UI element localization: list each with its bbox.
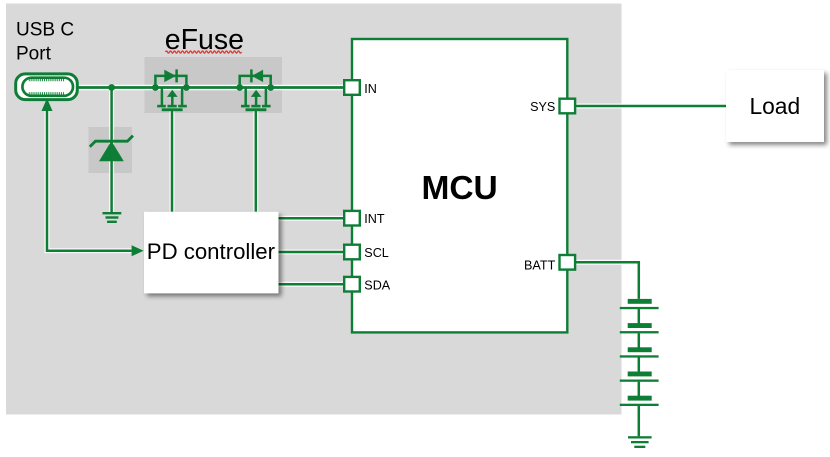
Q2 source leg [244, 88, 247, 106]
pin SYS [530, 99, 575, 114]
D1 triangle [99, 141, 124, 161]
Q2 body diode loop [240, 76, 271, 88]
Q1 body diode loop [155, 76, 186, 88]
wire: SYS to Load [576, 105, 727, 108]
svg-text:IN: IN [364, 82, 377, 96]
wire: USB arrow to PD controller [47, 104, 132, 251]
connector pin teeth bottom [29, 92, 65, 94]
svg-text:Port: Port [16, 44, 52, 65]
Q2 body diode cathode bar [250, 69, 253, 82]
ground (battery) [628, 436, 652, 448]
wire: main rail USB to IN [77, 86, 344, 89]
MCU U1 box [352, 39, 567, 332]
wire: PD to SCL [279, 251, 344, 254]
junction node on rail at TVS [108, 84, 115, 91]
svg-text:SCL: SCL [364, 246, 389, 260]
wire: TVS branch vertical (halo) [109, 88, 114, 213]
Q2 body arrow [255, 97, 258, 106]
wire: PD to SDA [279, 283, 344, 286]
svg-text:Load: Load [749, 93, 800, 119]
MOSFET Q2 [236, 69, 274, 111]
wire: gate 1 down [171, 110, 174, 212]
D1 cathode bar with TVS ticks [90, 136, 133, 147]
wire: BATT to battery [576, 262, 639, 299]
pin IN [344, 80, 377, 96]
pin SCL [344, 245, 389, 260]
Q2 body diode triangle [252, 70, 263, 82]
wire: gate 2 down (halo) [253, 110, 258, 212]
svg-text:SDA: SDA [364, 278, 390, 292]
Q1 body diode cathode bar [175, 69, 178, 82]
svg-text:eFuse: eFuse [165, 24, 244, 56]
connector inner stadium [22, 78, 73, 96]
Q1 drain leg [181, 88, 184, 106]
battery BT1 [620, 299, 659, 436]
wire: gate 2 down [255, 110, 258, 212]
Load box [726, 70, 824, 142]
Q2 drain leg [265, 88, 268, 106]
Q1 body arrow [171, 97, 174, 106]
svg-text:USB C: USB C [16, 20, 74, 41]
Q1 right terminal dot [183, 84, 190, 91]
wire: PD to SDA (halo) [279, 282, 344, 287]
Q1 channel bars [157, 105, 187, 108]
Q1 body diode triangle [164, 70, 176, 82]
pin INT [344, 211, 385, 226]
TVS highlight box [89, 127, 133, 173]
wire: PD to INT (halo) [279, 216, 344, 221]
arrowhead into PD controller [132, 245, 144, 256]
pin BATT [524, 255, 575, 272]
wire: PD to SCL (halo) [279, 250, 344, 255]
label: USB C Port [16, 20, 74, 65]
svg-text:SYS: SYS [530, 100, 555, 114]
USB-C connector [16, 74, 78, 100]
svg-text:INT: INT [364, 212, 385, 226]
wire: main rail USB to IN (white halo) [77, 85, 344, 91]
battery inter-cell wires [638, 309, 641, 436]
wire: gate 1 down (halo) [170, 110, 175, 212]
connector pin teeth top [29, 79, 65, 81]
Q1 source leg [161, 88, 164, 106]
PD controller U2 box [144, 212, 279, 293]
svg-text:BATT: BATT [524, 258, 556, 272]
MOSFET Q1 [152, 69, 190, 111]
wire: TVS branch vertical [110, 88, 113, 213]
svg-text:PD controller: PD controller [147, 239, 276, 264]
Q2 channel bars [241, 105, 271, 108]
Q2 gate plate [246, 108, 267, 111]
wire: SYS to Load (halo) [576, 104, 727, 109]
eFuse highlight box [145, 57, 283, 113]
ground (TVS) [103, 212, 122, 223]
wire: BATT to battery (halo) [576, 262, 639, 299]
arrowhead into USB port [42, 98, 53, 111]
svg-text:MCU: MCU [421, 170, 497, 207]
connector outer shell [16, 74, 78, 100]
wire: USB arrow to PD controller (halo) [47, 104, 132, 251]
Q2 right terminal dot [267, 84, 274, 91]
background panel (gray) [6, 4, 622, 415]
TVS diode D1 [90, 136, 133, 162]
battery cell plates [620, 299, 659, 406]
Q1 gate plate [162, 108, 183, 111]
wire: PD to INT [279, 217, 344, 220]
Q2 left terminal dot [236, 84, 243, 91]
spellcheck squiggle under eFuse [166, 51, 242, 53]
pin SDA [344, 277, 391, 292]
Q1 left terminal dot [152, 84, 159, 91]
